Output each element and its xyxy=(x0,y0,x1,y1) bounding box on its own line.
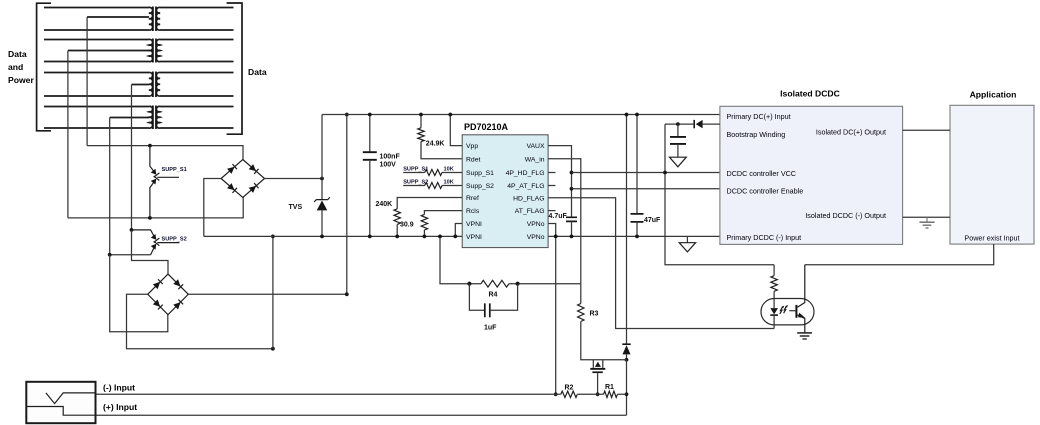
resistor 10K row1 xyxy=(403,170,462,176)
wire Vpp feed xyxy=(450,115,462,146)
wire T4 tap to SUPP_S2 bottom xyxy=(110,254,151,256)
node junction R4 right xyxy=(516,282,520,286)
transformer T4 xyxy=(44,106,234,130)
svg-text:Rref: Rref xyxy=(466,195,479,202)
svg-text:AT_FLAG: AT_FLAG xyxy=(515,208,545,215)
svg-text:1uF: 1uF xyxy=(484,325,497,332)
pin labels U1 right xyxy=(506,143,545,241)
pin stub 4P_HD_FLG xyxy=(548,172,555,174)
wire WA_in to R3 xyxy=(548,159,581,284)
wire bridge B1 minus output to negative rail xyxy=(204,179,221,237)
node junction D1 anode to MOSFET drain xyxy=(625,358,629,362)
wire Power exist Input to optocoupler collector xyxy=(805,244,994,265)
node junction 100nF bottom xyxy=(368,235,372,239)
label Data and Power xyxy=(8,49,34,85)
svg-text:(+) Input: (+) Input xyxy=(103,402,137,412)
svg-text:VPNo: VPNo xyxy=(527,234,545,241)
svg-text:VPNI: VPNI xyxy=(466,234,482,241)
svg-text:Supp_S1: Supp_S1 xyxy=(466,170,494,177)
wire negative rail right segment xyxy=(548,235,720,237)
capacitor bootstrap xyxy=(670,124,686,157)
svg-text:(-) Input: (-) Input xyxy=(103,382,135,392)
svg-text:4P_AT_FLG: 4P_AT_FLG xyxy=(507,183,544,190)
svg-text:SUPP_S1: SUPP_S1 xyxy=(403,167,428,173)
transistor Q1 MOSFET xyxy=(590,360,605,395)
ground isolated output xyxy=(919,217,934,228)
resistor optocoupler feed xyxy=(771,265,777,308)
svg-text:R3: R3 xyxy=(590,311,599,318)
svg-text:4.7uF: 4.7uF xyxy=(549,213,568,220)
svg-text:HD_FLAG: HD_FLAG xyxy=(513,195,544,202)
Application block xyxy=(950,105,1034,244)
node junction B1 plus on TVS line xyxy=(320,177,324,181)
node junction TVS on negative rail xyxy=(320,235,324,239)
wire negative rail left segment xyxy=(204,235,462,237)
node junction R4 left xyxy=(467,282,471,286)
node junction SUPP_S1 bottom xyxy=(148,216,152,220)
capacitor 47uF xyxy=(631,115,644,237)
diode D2 bootstrap xyxy=(665,120,720,128)
right bracket xyxy=(227,3,242,134)
svg-text:Power exist Input: Power exist Input xyxy=(964,234,1019,243)
wire Isolated DC plus output xyxy=(903,129,950,131)
wire bridge B2 plus output to top rail xyxy=(188,115,346,295)
wire VPNo pin1 down to minus input line xyxy=(548,224,556,395)
svg-text:Rcls: Rcls xyxy=(466,208,480,215)
Isolated DCDC block xyxy=(720,106,903,244)
svg-text:SUPP_S2: SUPP_S2 xyxy=(403,180,428,186)
svg-text:SUPP_S1: SUPP_S1 xyxy=(162,167,187,173)
wire bridge B1 plus output to TVS rail xyxy=(265,178,323,180)
node junction R1 right xyxy=(625,392,629,396)
TVS diode D_TVS xyxy=(314,115,330,237)
svg-text:R1: R1 xyxy=(605,384,614,391)
wire DCDC controller Enable rail xyxy=(572,188,720,190)
svg-text:Isolated DC(+) Output: Isolated DC(+) Output xyxy=(816,128,886,137)
optocoupler U2 xyxy=(761,265,814,333)
svg-text:PD70210A: PD70210A xyxy=(464,122,509,132)
suppressor SUPP_S1 xyxy=(150,146,179,218)
node junction Vpp on top rail xyxy=(448,113,452,117)
svg-text:10K: 10K xyxy=(444,180,454,186)
transformer T3 xyxy=(44,72,234,98)
svg-text:24.9K: 24.9K xyxy=(426,141,445,148)
wire T1 tap to bridge B1 top xyxy=(87,146,243,160)
node junction VAUX to VCC rail xyxy=(570,171,574,175)
wire bootstrap to VCC rail and optocoupler xyxy=(665,124,774,265)
node junction B2 plus on top rail xyxy=(345,113,349,117)
transformer T1 xyxy=(44,7,234,32)
svg-text:Primary DCDC (-) Input: Primary DCDC (-) Input xyxy=(727,233,802,242)
resistor 10K row2 xyxy=(403,183,462,189)
node junction 24.9K top xyxy=(419,113,423,117)
svg-text:DCDC controller VCC: DCDC controller VCC xyxy=(727,169,797,178)
diode D1 blocking xyxy=(622,344,630,360)
node junction 30.9 bottom xyxy=(423,235,427,239)
node junction 100nF top xyxy=(368,113,372,117)
wire T3 center tap down xyxy=(131,85,133,230)
wire T2 tap to bridge B1 bottom xyxy=(68,198,243,218)
svg-text:Power: Power xyxy=(8,75,34,85)
resistor R4 xyxy=(440,236,581,287)
svg-text:DCDC controller Enable: DCDC controller Enable xyxy=(727,187,804,196)
svg-text:Bootstrap Winding: Bootstrap Winding xyxy=(727,130,786,139)
svg-text:100V: 100V xyxy=(380,162,397,169)
wire VPNI pin1 xyxy=(455,224,462,237)
wire minus input line xyxy=(96,393,627,395)
wire bridge B2 minus output to negative rail riser xyxy=(127,294,273,348)
wire top rail to blocking diode xyxy=(626,115,628,345)
node junction bootstrap cap tap xyxy=(676,122,680,126)
resistor 30.9 xyxy=(421,211,462,237)
svg-text:10K: 10K xyxy=(444,167,454,173)
transformer T2 xyxy=(44,39,234,63)
svg-text:VPNI: VPNI xyxy=(466,221,482,228)
resistor 24.9K xyxy=(418,115,462,159)
wire top positive rail xyxy=(322,114,720,116)
svg-text:R4: R4 xyxy=(489,291,498,298)
node junction 4.7uF bottom xyxy=(570,235,574,239)
resistor R2 xyxy=(561,391,578,397)
svg-text:and: and xyxy=(8,62,23,72)
pin stub AT_FLAG xyxy=(548,210,555,212)
wire Isolated DCDC minus output xyxy=(903,216,950,218)
wire HD_FLAG to optocoupler LED xyxy=(548,198,774,329)
ground primary negative rail xyxy=(679,236,695,252)
node junction 47uF top xyxy=(635,113,639,117)
node junction B2 plus corner xyxy=(345,292,349,296)
capacitor 1uF xyxy=(469,284,517,318)
svg-text:VPNo: VPNo xyxy=(527,221,545,228)
wire VAUX to VCC and Enable rails xyxy=(548,146,571,218)
svg-text:SUPP_S2: SUPP_S2 xyxy=(162,236,187,242)
node junction VPNo1 on minus line xyxy=(554,392,558,396)
svg-text:Supp_S2: Supp_S2 xyxy=(466,183,494,190)
diode bridge B2 xyxy=(148,274,189,315)
ground optocoupler emitter xyxy=(797,333,812,339)
resistor R3 xyxy=(578,284,627,360)
capacitor 100nF 100V xyxy=(363,115,377,237)
svg-text:Data: Data xyxy=(248,67,267,77)
wire T4 center tap down xyxy=(109,118,111,255)
capacitor 4.7uF xyxy=(566,217,577,236)
svg-text:Isolated DCDC: Isolated DCDC xyxy=(780,89,840,99)
svg-text:TVS: TVS xyxy=(289,204,303,211)
wire T3 tap to bridge B2 top xyxy=(132,230,169,274)
wire DCDC controller VCC rail xyxy=(572,172,720,174)
svg-text:Data: Data xyxy=(8,49,27,59)
pin labels DCDC xyxy=(727,112,887,242)
node junction bootstrap on VCC rail xyxy=(663,171,667,175)
svg-text:Vpp: Vpp xyxy=(466,143,478,150)
wire T4 tap to bridge B2 bottom xyxy=(110,255,168,332)
svg-text:WA_in: WA_in xyxy=(525,156,545,163)
pin stub 4P_AT_FLG xyxy=(548,185,555,187)
svg-text:R2: R2 xyxy=(565,384,574,391)
svg-text:100nF: 100nF xyxy=(380,154,401,161)
svg-text:47uF: 47uF xyxy=(644,217,661,224)
pin labels U1 left xyxy=(466,143,494,241)
svg-text:4P_HD_FLG: 4P_HD_FLG xyxy=(506,170,545,177)
svg-text:240K: 240K xyxy=(376,201,393,208)
left RJ45 bracket xyxy=(37,3,51,131)
wire negative rail riser x272.9 xyxy=(272,236,274,348)
svg-text:Primary DC(+) Input: Primary DC(+) Input xyxy=(727,112,791,121)
node junction VPNI1 on rail xyxy=(453,235,457,239)
node junction R4 rail top xyxy=(438,235,442,239)
node junction 240K bottom xyxy=(395,235,399,239)
svg-text:Rdet: Rdet xyxy=(466,156,480,163)
svg-text:Application: Application xyxy=(970,89,1017,99)
wire D1 to R1 right and plus line xyxy=(626,360,628,415)
resistor R1 xyxy=(604,391,618,397)
wire plus input line xyxy=(96,414,627,416)
ground bootstrap xyxy=(670,157,687,167)
wire T2 center tap down xyxy=(67,51,69,218)
node junction x626 top rail xyxy=(625,113,629,117)
node junction MOSFET gate on minus line xyxy=(596,392,600,396)
svg-text:VAUX: VAUX xyxy=(526,143,544,150)
node junction B2 minus to rail xyxy=(271,347,275,351)
node junction VPNo1 on rail xyxy=(554,235,558,239)
node junction SUPP_S1 top xyxy=(148,144,152,148)
node junction riser on negative rail xyxy=(271,235,275,239)
node junction T4 tap branch xyxy=(108,253,112,257)
wire T1 center tap down xyxy=(86,17,88,146)
svg-text:Isolated DCDC (-) Output: Isolated DCDC (-) Output xyxy=(805,211,886,220)
connector input box xyxy=(26,382,95,423)
op-amp U1 PD70210A body xyxy=(462,135,548,248)
label 100nF 100V xyxy=(380,154,401,169)
node junction SUPP_S2 top tap xyxy=(130,228,134,232)
resistor 240K xyxy=(394,198,462,237)
node junction VAUX to Enable rail xyxy=(570,187,574,191)
node junction 47uF bottom xyxy=(635,235,639,239)
suppressor SUPP_S2 xyxy=(132,230,180,255)
diode bridge B1 xyxy=(221,160,264,198)
svg-text:30.9: 30.9 xyxy=(400,222,414,229)
